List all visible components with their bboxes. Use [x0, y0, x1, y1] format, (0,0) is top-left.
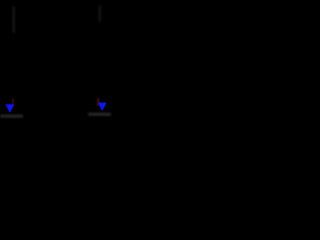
faint artifact: dark red smudge near arrowhead I2 — [97, 98, 100, 106]
wire I2: right current arrow shaft (with faded middle segment) — [101, 1, 104, 104]
faint artifact: bottom gray band left — [0, 115, 23, 118]
faint artifact: gray trace left of wire I2 top — [99, 5, 101, 22]
faint artifact: dark red smudge near arrowhead I1 — [12, 99, 14, 107]
faint artifact: bottom gray band right — [88, 113, 111, 116]
arrowhead I1: left arrow tip (points down) — [5, 104, 14, 113]
wire I1: left current arrow shaft — [8, 2, 11, 106]
background plate — [0, 0, 120, 125]
arrowhead I2: right arrow tip (points down) — [98, 103, 107, 111]
faint artifact: gray trace right of wire I1 top — [13, 6, 15, 33]
